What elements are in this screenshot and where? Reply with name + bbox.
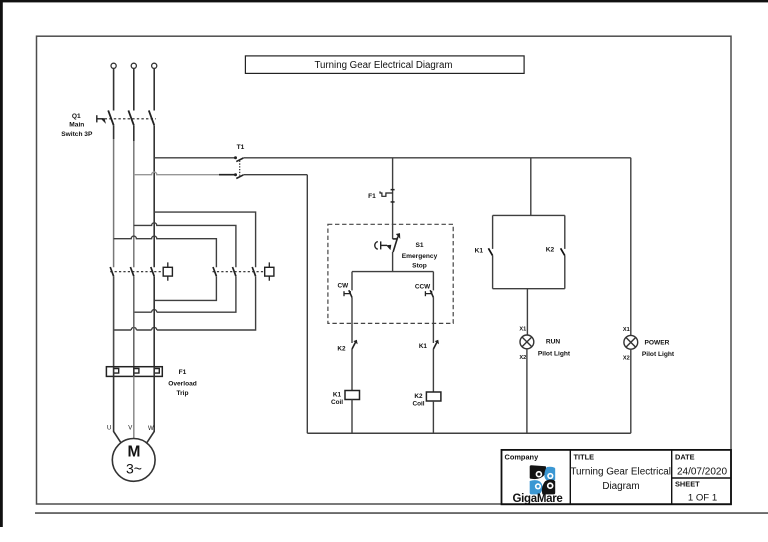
- svg-text:K2: K2: [546, 247, 555, 254]
- svg-text:F1: F1: [368, 193, 376, 200]
- wire bottom rail: [307, 432, 631, 434]
- title block outer: [502, 450, 732, 504]
- wire phase L1 upper: [113, 69, 115, 111]
- wire K2 branch 3 bottom with hops: [114, 276, 256, 330]
- wire K2 contact to K1 coil: [351, 349, 353, 391]
- wires through overload: [114, 367, 155, 377]
- motor M circle: [112, 439, 155, 482]
- logo GigaMare mark: [530, 465, 556, 494]
- pushbutton S1 actuator: [375, 241, 391, 249]
- contactor K1 linkage box: [163, 267, 172, 276]
- wire phase L2 upper: [133, 69, 135, 111]
- contactor K1 linkage stubs: [167, 262, 169, 280]
- svg-text:1 OF 1: 1 OF 1: [688, 493, 717, 504]
- label K1 Coil: [331, 391, 343, 406]
- wire K2 branch 3 top with hops: [114, 236, 217, 267]
- wire S1 down: [392, 252, 394, 272]
- contact K2 NO: [561, 248, 565, 255]
- title block date/sheet divider: [672, 477, 731, 479]
- svg-text:CW: CW: [337, 283, 349, 290]
- title block divider 1: [569, 450, 571, 504]
- fuse F1 trip hook: [380, 191, 393, 196]
- T1 secondary wire from L2 with hop over L3: [134, 172, 219, 175]
- label POWER Pilot Light: [642, 340, 675, 358]
- overload element pole1: [114, 369, 119, 374]
- linkage dashes between boxes: [213, 271, 265, 273]
- wire K1 contact to K2 coil: [432, 349, 434, 392]
- svg-text:RUN: RUN: [546, 339, 561, 346]
- wire K2 branch 1 top: [154, 212, 255, 267]
- terminal L1: [111, 63, 116, 68]
- svg-text:V: V: [128, 426, 132, 432]
- wire CW to K2 contact: [351, 297, 353, 343]
- svg-text:Turning Gear Electrical: Turning Gear Electrical: [570, 467, 671, 478]
- svg-text:Diagram: Diagram: [602, 481, 639, 492]
- wire phase L3 upper: [153, 69, 155, 111]
- svg-text:K1: K1: [333, 391, 342, 398]
- wire phase L3 mid: [153, 125, 155, 267]
- svg-text:Q1: Q1: [72, 113, 81, 120]
- wire RUN lamp down: [526, 349, 528, 433]
- contactor K1 main contact pole1: [110, 267, 113, 276]
- contact box top: [493, 214, 565, 216]
- terminal L3: [152, 63, 157, 68]
- svg-text:T1: T1: [237, 144, 245, 151]
- selector CW actuator: [344, 291, 350, 296]
- label F1 Overload Trip: [168, 369, 197, 397]
- wire control left rail down: [306, 175, 308, 434]
- contactor K2 linkage stubs: [268, 262, 270, 280]
- svg-text:24/07/2020: 24/07/2020: [677, 467, 727, 478]
- T1 secondary blade: [236, 175, 243, 179]
- wire motor U: [114, 376, 121, 442]
- contactor K2 main contact pole2: [233, 267, 236, 276]
- wire F1 branch drop: [392, 158, 394, 239]
- svg-text:F1: F1: [179, 369, 187, 376]
- T1 primary wire right: [243, 157, 631, 159]
- overload F1 box: [106, 367, 162, 377]
- wire CCW branch upper: [432, 272, 434, 291]
- wire CW branch upper: [351, 272, 353, 291]
- svg-text:X1: X1: [519, 327, 526, 333]
- wire phase L3 lower: [153, 276, 155, 367]
- wire K2 branch 2 bottom with hop: [134, 276, 236, 312]
- svg-text:X2: X2: [519, 355, 526, 361]
- title block divider 2: [671, 450, 673, 504]
- page bottom edge: [35, 512, 768, 514]
- page top edge: [0, 0, 768, 2]
- contact K1 NC aux: [433, 340, 438, 349]
- svg-text:DATE: DATE: [675, 452, 695, 461]
- contactor K1 main contact pole3: [151, 267, 154, 276]
- svg-text:K1: K1: [475, 247, 484, 254]
- svg-text:X1: X1: [623, 327, 630, 333]
- contact box right upper: [564, 215, 566, 249]
- wire branch bar: [352, 271, 433, 273]
- wire K2 branch 2 top with hop: [134, 223, 236, 267]
- svg-text:Company: Company: [505, 452, 540, 461]
- T1 secondary junction dot: [234, 173, 237, 176]
- coil K2: [426, 392, 441, 401]
- selector CW contact: [349, 290, 352, 297]
- svg-text:Emergency: Emergency: [402, 253, 438, 260]
- drawing border frame: [37, 36, 732, 504]
- emergency stop dashed enclosure: [328, 224, 453, 323]
- svg-text:Coil: Coil: [331, 399, 343, 406]
- svg-text:Switch 3P: Switch 3P: [61, 131, 93, 138]
- switch Q1 pole 2 blade: [128, 110, 133, 125]
- wire contact box down: [526, 289, 528, 335]
- wire motor V: [133, 376, 135, 438]
- svg-text:CCW: CCW: [415, 283, 431, 290]
- svg-text:Pilot Light: Pilot Light: [642, 351, 675, 358]
- contactor K1 main contact pole2: [130, 267, 133, 276]
- fuse F1 ticks: [391, 189, 395, 191]
- svg-text:GigaMare: GigaMare: [512, 493, 562, 505]
- svg-text:K2: K2: [337, 345, 346, 352]
- svg-text:Turning Gear Electrical Diagra: Turning Gear Electrical Diagram: [314, 60, 452, 71]
- overload element pole3: [154, 369, 159, 374]
- overload element pole2: [134, 369, 139, 374]
- contactor K2 main contact pole1: [213, 267, 216, 276]
- contact box left lower: [492, 256, 494, 289]
- page left edge: [0, 0, 3, 527]
- svg-text:Stop: Stop: [412, 263, 427, 270]
- svg-text:X2: X2: [623, 356, 630, 362]
- T1 link dotted: [239, 161, 241, 176]
- svg-text:Overload: Overload: [168, 381, 197, 388]
- terminal L2: [131, 63, 136, 68]
- lamp RUN pilot: [520, 335, 534, 349]
- contactor K2 linkage box: [265, 267, 274, 276]
- svg-text:TITLE: TITLE: [574, 452, 595, 461]
- wire K1 coil down: [351, 400, 353, 434]
- wire K2 branch 1 bottom: [154, 276, 216, 300]
- switch Q1 pole 3 blade: [149, 110, 154, 125]
- selector CCW contact: [430, 290, 433, 297]
- wire phase L1 lower: [113, 276, 115, 367]
- wire phase L1 mid: [113, 125, 115, 139]
- svg-text:K1: K1: [419, 343, 428, 350]
- contact K1 NO: [488, 248, 492, 255]
- wire motor W: [147, 376, 154, 442]
- wire phase L2 lower: [133, 276, 135, 367]
- label K2 Coil: [412, 393, 424, 408]
- wire feed to contact box: [530, 158, 532, 216]
- svg-text:Main: Main: [69, 121, 84, 128]
- contact box bottom: [493, 288, 565, 290]
- T1 secondary wire right: [243, 174, 307, 176]
- svg-text:Pilot Light: Pilot Light: [538, 350, 571, 357]
- contact box right lower: [564, 256, 566, 289]
- wire POWER lamp down: [630, 349, 632, 433]
- wire phase L2 mid: [133, 125, 135, 141]
- svg-text:Coil: Coil: [412, 401, 424, 408]
- svg-text:3~: 3~: [126, 461, 142, 477]
- contact K2 NC aux: [352, 340, 357, 349]
- contact box left upper: [492, 215, 494, 249]
- switch Q1 linkage dashed line: [105, 118, 156, 120]
- svg-text:S1: S1: [415, 242, 423, 249]
- lamp POWER pilot: [624, 335, 638, 349]
- coil K1: [345, 391, 360, 400]
- svg-text:M: M: [128, 444, 141, 461]
- svg-text:W: W: [148, 426, 154, 432]
- label S1 Emergency Stop: [402, 242, 438, 269]
- svg-text:Trip: Trip: [176, 390, 188, 397]
- wire CCW to K1 contact: [432, 297, 434, 343]
- wire right rail down: [630, 158, 632, 336]
- svg-text:K2: K2: [414, 393, 423, 400]
- svg-text:U: U: [107, 426, 111, 432]
- switch Q1 pole 1 blade: [108, 110, 113, 125]
- selector CCW actuator: [425, 291, 431, 296]
- contactor K2 main contact pole3: [252, 267, 255, 276]
- svg-text:SHEET: SHEET: [675, 480, 700, 489]
- T1 primary blade: [236, 158, 243, 162]
- pushbutton S1 NC contact: [393, 234, 400, 252]
- label Q1 Main Switch 3P: [61, 113, 93, 138]
- svg-text:POWER: POWER: [645, 340, 670, 347]
- transformer T1 primary wire from L3: [154, 157, 235, 159]
- wire K2 coil down: [432, 401, 434, 433]
- T1 primary junction dot: [234, 156, 237, 159]
- label RUN Pilot Light: [538, 339, 571, 358]
- switch Q1 actuator: [97, 115, 105, 122]
- title box: [245, 56, 524, 74]
- contactor K1 linkage dashes: [110, 271, 163, 273]
